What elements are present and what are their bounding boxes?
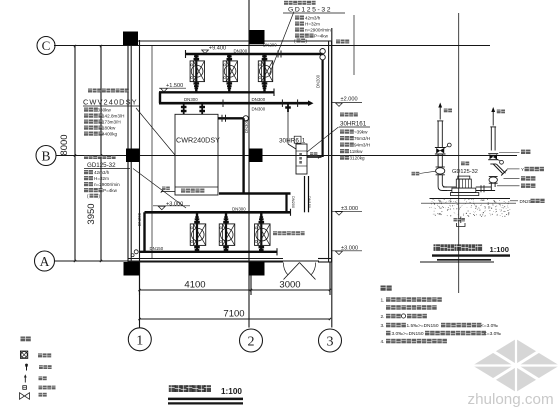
svg-text:4100: 4100 bbox=[184, 280, 205, 291]
dim extension lines bottom bbox=[139, 262, 141, 295]
svg-text:±3.000: ±3.000 bbox=[341, 206, 358, 212]
svg-text:CWV240DSY: CWV240DSY bbox=[83, 98, 138, 107]
main header flanges bbox=[222, 99, 224, 107]
level +9.400 bbox=[202, 50, 209, 53]
svg-text:1:100: 1:100 bbox=[490, 245, 509, 254]
grid bubble 1 bbox=[128, 328, 151, 351]
svg-text:3120kg: 3120kg bbox=[350, 156, 366, 161]
pump row annotation bbox=[273, 231, 277, 235]
pipe DN300 top header bbox=[185, 53, 323, 55]
grid bubble C bbox=[37, 37, 55, 55]
wall bottom bbox=[128, 258, 283, 260]
legend row3 symbol bbox=[24, 376, 26, 383]
svg-text:180kw: 180kw bbox=[102, 126, 116, 131]
legend row5 symbol bbox=[20, 393, 25, 400]
detail left elbow bbox=[438, 175, 447, 191]
aux line x354 bbox=[353, 15, 355, 75]
grid line 1 vertical bbox=[139, 40, 141, 328]
svg-text:4400kg: 4400kg bbox=[102, 132, 118, 137]
detail label leader 3 bbox=[504, 178, 520, 180]
level ±3.000 a bbox=[336, 212, 343, 215]
column grid2-B bbox=[249, 149, 263, 163]
level ±3.000 b bbox=[336, 251, 343, 254]
note 1b bbox=[386, 305, 391, 310]
legend row4 label bbox=[39, 386, 43, 390]
pipe DN300 main header bbox=[159, 102, 308, 105]
svg-text:H=32m: H=32m bbox=[305, 22, 320, 27]
spec block pump-top title bbox=[284, 1, 288, 5]
svg-text:3000: 3000 bbox=[279, 280, 300, 291]
plan title underline bbox=[168, 398, 243, 401]
svg-text:n=2900r/min: n=2900r/min bbox=[305, 28, 331, 33]
svg-text:76m3/H: 76m3/H bbox=[354, 136, 370, 141]
grid line 2 vertical bbox=[248, 0, 250, 328]
svg-text:1: 1 bbox=[302, 138, 306, 145]
svg-text:DN20: DN20 bbox=[520, 199, 532, 204]
spec pump-top l1 bbox=[295, 16, 299, 20]
svg-text:C: C bbox=[42, 38, 51, 53]
svg-text:1.: 1. bbox=[381, 298, 385, 304]
column grid1-B bbox=[126, 149, 140, 163]
spec pump-left l1 bbox=[84, 170, 88, 174]
legend row5 label bbox=[39, 393, 43, 397]
door leaves bbox=[284, 263, 300, 280]
detail left flow arrow bbox=[439, 107, 441, 120]
svg-text:2: 2 bbox=[248, 335, 255, 350]
watermark logo diamond bbox=[473, 339, 560, 392]
spec block 30HR title bbox=[340, 113, 344, 117]
pipe chiller outlet east bbox=[218, 117, 244, 119]
spec pump-left l4 bbox=[84, 188, 88, 192]
svg-text:+9.400: +9.400 bbox=[209, 45, 226, 51]
wall right bbox=[328, 41, 330, 262]
spec pump-top l3 bbox=[295, 28, 299, 32]
svg-text:DN200: DN200 bbox=[263, 42, 277, 47]
unit 30HR161 outlet to wall bbox=[307, 156, 322, 158]
svg-text:DN200: DN200 bbox=[137, 212, 142, 226]
column grid2-C bbox=[250, 30, 265, 44]
svg-text:42m3/h: 42m3/h bbox=[94, 170, 110, 175]
svg-text:3.0‰>=DN150: 3.0‰>=DN150 bbox=[392, 331, 424, 337]
detail suction pipe horizontal bbox=[443, 186, 456, 188]
svg-text:zhulong.com: zhulong.com bbox=[468, 391, 554, 408]
leader to pump spec top bbox=[270, 12, 295, 75]
svg-text:DN300: DN300 bbox=[184, 97, 198, 102]
detail discharge pipe horizontal bbox=[476, 186, 492, 188]
detail right butterfly valve bbox=[488, 153, 498, 155]
svg-text:94m3/H: 94m3/H bbox=[354, 143, 370, 148]
detail right drop to pipe bbox=[490, 183, 492, 190]
top header elbow flange circles bbox=[320, 49, 325, 54]
bottom header end fittings bbox=[134, 250, 138, 254]
chilled pump 3 bbox=[260, 212, 262, 252]
spec pump-top l4 bbox=[295, 34, 299, 38]
stub to 30HR bbox=[287, 103, 289, 112]
pipe bottom suction header bbox=[140, 251, 278, 253]
detail left butterfly valve bbox=[435, 147, 446, 149]
grid bubble 2 bbox=[240, 329, 263, 352]
grid line C bbox=[54, 45, 490, 47]
interior line bbox=[151, 46, 153, 259]
detail pump label bbox=[461, 162, 465, 166]
spec 30HR l3 bbox=[340, 143, 344, 147]
detail label leader 2 bbox=[507, 168, 520, 170]
spec 30HR l5 bbox=[340, 156, 344, 160]
svg-text:2.: 2. bbox=[381, 314, 385, 320]
spec 30HR l1 bbox=[340, 130, 344, 134]
grid line 3 vertical bbox=[331, 28, 333, 328]
legend row1 symbol butterfly bbox=[20, 351, 27, 358]
pipe lower east header bbox=[219, 192, 291, 194]
svg-text:1: 1 bbox=[136, 334, 143, 349]
detail drain bbox=[460, 217, 462, 224]
legend row1 label bbox=[38, 353, 42, 357]
svg-text:DN200: DN200 bbox=[291, 196, 296, 209]
svg-text:4.: 4. bbox=[381, 339, 385, 345]
svg-text:DN300: DN300 bbox=[252, 97, 266, 102]
chiller CWR240DSY body bbox=[175, 114, 218, 195]
unit 30HR161 body bbox=[296, 144, 307, 174]
level +3.000 plan bbox=[158, 206, 165, 209]
svg-text:DN300: DN300 bbox=[232, 206, 246, 211]
svg-text:DN300: DN300 bbox=[244, 119, 249, 133]
wall left bbox=[127, 41, 129, 262]
riser DN200 at east wall bbox=[322, 60, 324, 157]
svg-text:B: B bbox=[41, 149, 50, 164]
detail foundation hatch bbox=[429, 199, 510, 217]
detail ground line bbox=[421, 202, 516, 204]
column grid2-A bbox=[249, 262, 265, 276]
detail right flex joint bbox=[489, 177, 497, 183]
cooling pump 3 bbox=[263, 54, 265, 92]
spec chiller l5 bbox=[84, 132, 88, 136]
note 3b bbox=[386, 331, 391, 336]
svg-text:CWR240DSY: CWR240DSY bbox=[176, 136, 220, 145]
detail label leader 4 bbox=[497, 185, 520, 187]
top header flanges bbox=[277, 51, 279, 58]
spec chiller l1 bbox=[84, 108, 88, 112]
column grid1-C bbox=[123, 32, 138, 46]
riser DN300 chiller bbox=[242, 118, 244, 193]
notes header bbox=[381, 286, 386, 291]
cooling pump 1 bbox=[195, 54, 197, 92]
leader to 30HR spec bbox=[307, 127, 339, 152]
elbow left headers bbox=[159, 92, 161, 103]
svg-text:DN300: DN300 bbox=[234, 48, 248, 53]
spec chiller l2 bbox=[84, 114, 88, 118]
dim line 8000 bbox=[74, 46, 76, 261]
chiller bottom strip text bbox=[181, 189, 185, 193]
detail left label bbox=[412, 172, 416, 176]
leader to pump spec left bbox=[133, 169, 186, 209]
svg-text:n=2900r/min: n=2900r/min bbox=[94, 182, 120, 187]
detail label DN20 drain pipe bbox=[510, 200, 518, 202]
svg-text:±3.000: ±3.000 bbox=[341, 245, 358, 251]
detail pump base bbox=[452, 188, 476, 192]
chiller left connection note bbox=[161, 191, 175, 193]
level ±2.000 bbox=[336, 103, 343, 106]
spec pump-top l2 bbox=[295, 22, 299, 26]
dim line 3950 bbox=[100, 46, 102, 261]
svg-text:6: 6 bbox=[295, 138, 299, 145]
level +1.500 bbox=[161, 88, 168, 91]
chilled pump 2 bbox=[225, 212, 227, 252]
pipe suction header bbox=[159, 91, 274, 93]
spec block pump-left title bbox=[84, 155, 88, 159]
detail right flow arrow bbox=[492, 111, 494, 126]
svg-text:GD125-32: GD125-32 bbox=[87, 162, 116, 169]
detail left flex joint bbox=[436, 166, 445, 168]
fold line vertical bbox=[458, 13, 460, 293]
legend row2 label bbox=[39, 365, 43, 369]
spec pump-left l3 bbox=[84, 182, 88, 186]
note beside wall top bbox=[336, 40, 340, 44]
svg-text:P=4kw: P=4kw bbox=[314, 34, 329, 39]
svg-text:1.5‰>=DN150: 1.5‰>=DN150 bbox=[407, 323, 439, 329]
spec 30HR l2 bbox=[340, 136, 344, 140]
svg-text:Y: Y bbox=[521, 167, 524, 172]
dim line 7100 bbox=[140, 318, 331, 320]
grid line B bbox=[56, 155, 517, 157]
pipe lower main header bbox=[145, 211, 291, 214]
svg-text:P=4kw: P=4kw bbox=[103, 188, 118, 193]
svg-text:118kw: 118kw bbox=[350, 149, 364, 154]
detail title bbox=[434, 244, 441, 251]
svg-text:30HR161: 30HR161 bbox=[340, 120, 367, 127]
detail right riser pipe bbox=[490, 127, 492, 151]
svg-text:30HR: 30HR bbox=[279, 138, 296, 145]
spec pump-left l2 bbox=[84, 176, 88, 180]
thin risers from 30HR bbox=[304, 176, 306, 212]
wall top bbox=[128, 40, 332, 42]
spec chiller l3 bbox=[84, 120, 88, 124]
svg-text:3950: 3950 bbox=[86, 203, 97, 224]
spec 30HR l4 bbox=[340, 149, 344, 153]
svg-text:A: A bbox=[40, 254, 50, 269]
svg-text:GD125-32: GD125-32 bbox=[452, 169, 478, 175]
grid line A bbox=[54, 260, 319, 262]
svg-text:330kw: 330kw bbox=[98, 108, 112, 113]
legend row3 label bbox=[39, 376, 43, 380]
leader to chiller spec bbox=[136, 108, 175, 155]
svg-text:7100: 7100 bbox=[223, 309, 244, 320]
svg-text:8000: 8000 bbox=[59, 134, 70, 155]
svg-text:3: 3 bbox=[327, 335, 334, 350]
svg-text:GD125-32: GD125-32 bbox=[288, 7, 332, 14]
legend row2 symbol bbox=[26, 365, 28, 371]
svg-text:1:100: 1:100 bbox=[221, 387, 242, 396]
svg-text:~39kw: ~39kw bbox=[354, 130, 368, 135]
detail Y strainer bbox=[490, 163, 496, 165]
svg-text:3.: 3. bbox=[381, 323, 385, 329]
svg-text:173m3/H: 173m3/H bbox=[102, 120, 121, 125]
svg-text:<=3.0‰: <=3.0‰ bbox=[481, 323, 498, 329]
legend row4 symbol bbox=[23, 386, 27, 390]
grid bubble B bbox=[36, 146, 56, 166]
svg-text:142.8m3/H: 142.8m3/H bbox=[102, 114, 124, 119]
chiller top stubs bbox=[183, 103, 185, 114]
drop to main lower header bbox=[285, 194, 287, 213]
detail pump motor bbox=[458, 176, 470, 179]
spec chiller l4 bbox=[84, 126, 88, 130]
spec block chiller title bbox=[88, 89, 92, 93]
detail label leader 1 bbox=[499, 152, 520, 154]
detail title underline bbox=[432, 254, 510, 256]
chilled pump 1 bbox=[196, 212, 198, 252]
svg-text:±2.000: ±2.000 bbox=[341, 97, 358, 103]
grid bubble 3 bbox=[319, 329, 342, 352]
grid bubble A bbox=[35, 251, 55, 271]
detail foundation top bbox=[430, 198, 511, 200]
cooling pump 2 bbox=[228, 54, 230, 92]
plan title bbox=[169, 385, 176, 392]
svg-text:<=3.0‰: <=3.0‰ bbox=[484, 331, 501, 337]
west riser DN200 bbox=[143, 212, 145, 252]
svg-text:H=32m: H=32m bbox=[94, 176, 109, 181]
svg-text:DN150: DN150 bbox=[150, 246, 164, 251]
dim line 4100/3000 bbox=[140, 289, 331, 291]
column grid1-A bbox=[124, 262, 140, 276]
svg-text:DN300: DN300 bbox=[252, 107, 266, 112]
svg-text:42m3/h: 42m3/h bbox=[305, 16, 321, 21]
detail left riser pipe bbox=[437, 121, 439, 148]
legend title bbox=[21, 337, 26, 342]
svg-text:DN200: DN200 bbox=[316, 74, 321, 88]
